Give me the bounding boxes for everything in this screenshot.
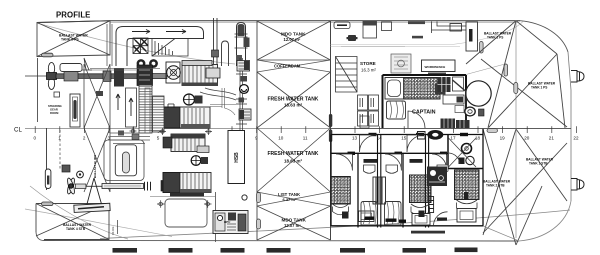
- svg-text:11: 11: [303, 136, 308, 141]
- frame tick 18: [477, 126, 479, 133]
- svg-text:15: 15: [401, 136, 407, 141]
- frame tick 19: [502, 126, 504, 133]
- captain dresser dark grid: [438, 77, 451, 92]
- aft pipe bundle: [110, 133, 150, 144]
- galley counter dark: [441, 119, 470, 129]
- keel block 7: [455, 248, 478, 253]
- svg-text:TANK 2 STB: TANK 2 STB: [486, 184, 505, 188]
- pump circle stbd: [191, 156, 208, 166]
- sofa berth cabin2 left: [361, 202, 378, 226]
- muffler valve block: [244, 38, 250, 48]
- sofa berth cabin2 right: [385, 202, 402, 226]
- propeller shaft thick: [56, 74, 161, 79]
- registration cross fwd top: [205, 128, 212, 135]
- aft peak X-brace upper: [84, 64, 110, 128]
- shaft coupling ticks: [145, 182, 151, 191]
- bed cabin4 nightstand: [457, 209, 476, 223]
- deck locker small rounded: [334, 22, 350, 29]
- mooring bitts label 2: [412, 36, 423, 39]
- hatch dark bar fore: [411, 231, 445, 234]
- lower fender pill: [42, 202, 54, 206]
- bed cabin1 nightstand: [359, 211, 375, 222]
- sheer curve lower: [100, 210, 570, 239]
- frame tick 1: [59, 126, 61, 133]
- svg-text:GEAR: GEAR: [50, 107, 58, 111]
- main engine stbd plan: [163, 134, 209, 153]
- wc room door arc: [449, 153, 460, 164]
- bow chock upper: [571, 71, 584, 83]
- bottom right corner curve: [519, 201, 571, 241]
- cooling pump circle upper: [184, 94, 203, 105]
- svg-text:STEERING: STEERING: [48, 104, 62, 108]
- bow vertical brace upper: [515, 21, 517, 128]
- wc room shower dark: [459, 158, 465, 165]
- muffler flange marks: [235, 34, 248, 48]
- aft lower ballast tank 4 STB outline: [36, 204, 109, 240]
- captain sofa: [387, 101, 406, 119]
- svg-text:HPU: HPU: [224, 220, 230, 224]
- aft lower ballast tank 4 STB diagonals: [36, 204, 109, 240]
- coupling flange circle: [153, 62, 181, 83]
- svg-text:10: 10: [278, 136, 284, 141]
- svg-text:2: 2: [83, 136, 86, 141]
- bed cabin4 blanket curves: [457, 200, 478, 212]
- mess corridor diagonal wall: [453, 80, 467, 92]
- hatch coaming lines: [432, 22, 467, 34]
- frame tick 3: [108, 126, 110, 133]
- small circle fitting: [242, 195, 247, 200]
- wc room walls lower: [448, 135, 483, 169]
- funnel intake pumps dark circles: [137, 59, 146, 68]
- basin cabin2: [386, 165, 398, 173]
- stern quarter curve lower: [30, 186, 128, 239]
- captain bed frame: [385, 78, 440, 100]
- brace pill upper: [514, 83, 518, 94]
- frame tick 0: [34, 126, 36, 133]
- frame tick 9: [256, 126, 258, 133]
- svg-text:19: 19: [500, 136, 506, 141]
- bed cabin4 mattress: [455, 170, 480, 200]
- column tees: [236, 74, 247, 124]
- forecastle deck edge lines: [331, 45, 461, 47]
- thruster cabinet: [70, 94, 80, 127]
- brace pill lower: [487, 129, 498, 133]
- engine casing stairs: [152, 39, 175, 57]
- svg-text:WORKBENCH: WORKBENCH: [425, 65, 447, 69]
- svg-text:TANK 2 PS: TANK 2 PS: [487, 36, 503, 40]
- equipment dotted box: [391, 54, 411, 73]
- engine room floor line: [150, 196, 215, 198]
- gearbox block: [137, 65, 153, 86]
- wc room basin: [466, 156, 474, 164]
- vent duct main run: [116, 27, 204, 67]
- fore deck door cabinet: [466, 22, 478, 51]
- wc room cross braces: [449, 138, 477, 167]
- captain door arc: [408, 111, 425, 128]
- captain desk: [443, 95, 464, 104]
- svg-text:6.37 m³: 6.37 m³: [283, 197, 297, 202]
- deck box tall: [363, 22, 377, 39]
- bed cabin3 nightstand: [412, 214, 430, 226]
- pipe drop fwd of engine: [210, 88, 236, 108]
- column top manifold: [237, 61, 250, 72]
- tank fore bulkhead: [330, 21, 332, 240]
- svg-text:1: 1: [58, 136, 61, 141]
- frame tick 21: [551, 126, 553, 133]
- cabin divider wall 4 double: [426, 135, 429, 228]
- cofferdam void boxes aft: [104, 140, 144, 181]
- svg-text:5: 5: [157, 136, 160, 141]
- flex hoses: [200, 88, 236, 100]
- transom inner curve: [25, 209, 172, 237]
- svg-text:10.9m: 10.9m: [111, 226, 115, 235]
- propeller: [47, 63, 57, 90]
- rudder stock plan: [46, 128, 48, 190]
- workbench tools bar: [428, 73, 446, 76]
- life ring dark oval: [427, 130, 443, 140]
- mess wall vertical: [465, 92, 467, 123]
- svg-text:TANK 3-PS: TANK 3-PS: [61, 38, 79, 42]
- life ring bracket: [418, 132, 426, 140]
- bed cabin1 dark mark: [342, 212, 349, 219]
- store wardrobe grid: [358, 95, 379, 126]
- bow curve top: [520, 21, 568, 52]
- frame tick 11: [305, 126, 307, 133]
- bow web upper diagonals: [466, 21, 567, 128]
- bed cabin4 dark mark: [464, 192, 468, 199]
- void box pill: [122, 152, 129, 173]
- hull top edge profile: [37, 21, 520, 23]
- store lower cabinet: [360, 116, 369, 128]
- muffler lower block: [236, 55, 242, 63]
- frame tick 5: [157, 126, 159, 133]
- keel block 2: [169, 248, 193, 253]
- hatch small rect: [450, 24, 462, 32]
- wc toilet upper: [465, 107, 484, 116]
- store stairs: [336, 57, 358, 93]
- fore deck edge diagonal: [483, 226, 519, 241]
- svg-text:TANK 1 STB: TANK 1 STB: [529, 162, 548, 166]
- fore cabin door arc: [434, 212, 448, 226]
- rudder stock profile: [37, 58, 39, 122]
- duct arrow up 2: [116, 94, 120, 110]
- svg-text:STORE: STORE: [360, 61, 376, 66]
- svg-text:21: 21: [549, 136, 555, 141]
- engine room aft bulkhead: [256, 21, 258, 240]
- column blob a: [241, 76, 248, 82]
- exhaust pipe riser pair: [214, 18, 218, 66]
- svg-text:22: 22: [573, 136, 579, 141]
- svg-text:ROOM: ROOM: [50, 111, 59, 115]
- pipe bundle fittings: [118, 131, 124, 136]
- svg-text:12.07 m³: 12.07 m³: [284, 223, 301, 228]
- steering link dashed: [59, 130, 61, 170]
- captain nightstand dark: [435, 84, 446, 95]
- frame tick 15: [403, 126, 405, 133]
- captain mattress dotted: [404, 78, 441, 100]
- bed cabin3 blanket curves: [411, 204, 430, 215]
- engine room fwd wall line: [215, 192, 217, 242]
- stern bottom corner: [36, 232, 44, 241]
- keel block 1: [113, 248, 138, 253]
- svg-text:CL: CL: [14, 127, 22, 134]
- corridor wall: [331, 152, 448, 154]
- shaft flange dark block: [161, 181, 168, 192]
- registration cross fwd bottom: [204, 200, 212, 208]
- cooler rib bank 2: [153, 96, 165, 132]
- MDO tank PS diagonals: [257, 21, 331, 60]
- ballast water tank 3-PS diagonals: [37, 21, 110, 57]
- svg-text:MDO TANK: MDO TANK: [281, 32, 306, 37]
- svg-text:BALLAST W. 4PS: BALLAST W. 4PS: [93, 155, 97, 178]
- aft peak X-brace lower: [84, 128, 110, 192]
- svg-text:12.07 m³: 12.07 m³: [284, 37, 301, 42]
- stern fender pill: [42, 53, 54, 57]
- MDO tank STB diagonals: [257, 206, 331, 240]
- cooler rib bank: [139, 85, 152, 133]
- door threshold marks mid wall: [348, 152, 448, 155]
- frame tick 17: [452, 126, 454, 133]
- fresh water tank STB diagonals: [257, 128, 331, 192]
- cabin door arc 3: [432, 154, 446, 169]
- hull bottom edge: [44, 240, 519, 243]
- wc room toilet: [462, 144, 472, 154]
- engine bed outline: [165, 199, 207, 227]
- shaft thin line plan: [86, 185, 102, 187]
- shaft tube plan: [102, 184, 144, 189]
- list tank diagonals: [257, 192, 331, 206]
- sheer curve upper: [37, 23, 235, 64]
- cabin divider wall 3: [402, 153, 404, 227]
- uptake vertical ducts: [107, 24, 112, 66]
- shaft stub plan: [75, 184, 86, 189]
- basin cabin3: [437, 165, 448, 173]
- bulkhead pill lower: [329, 130, 332, 143]
- escape ladder: [429, 197, 434, 213]
- frame tick 10: [280, 126, 282, 133]
- funnel casing HSB: [228, 131, 245, 184]
- duct arrow up 1: [129, 98, 133, 116]
- svg-text:MDO TANK: MDO TANK: [282, 218, 307, 223]
- mess table circle: [466, 81, 491, 106]
- fresh water tank PS diagonals: [257, 72, 331, 128]
- sofa arm dark marks: [365, 217, 407, 223]
- bow vertical brace lower: [515, 129, 517, 238]
- frame tick 8: [231, 126, 233, 133]
- column foot box: [234, 131, 245, 136]
- riser valve: [212, 50, 219, 57]
- door threshold marks top wall: [369, 133, 469, 136]
- stern gland circle: [77, 171, 84, 178]
- skeg strut V: [87, 178, 102, 204]
- muffler mast: [237, 23, 246, 67]
- deck box small: [382, 22, 392, 31]
- registration cross aft bottom: [157, 200, 165, 208]
- svg-text:17: 17: [450, 136, 456, 141]
- fwd cabin dark unit: [427, 167, 447, 187]
- svg-text:18.63 m³: 18.63 m³: [284, 159, 303, 164]
- cabin block outer walls: [331, 129, 483, 226]
- keel block 5: [340, 248, 365, 253]
- centerline CL: [25, 128, 330, 130]
- rudder blade plan: [45, 169, 51, 189]
- frame tick 20: [526, 126, 528, 133]
- svg-text:TANK 4 STB: TANK 4 STB: [66, 227, 86, 231]
- cabin door arc 1: [336, 154, 352, 171]
- small box aft: [54, 92, 60, 97]
- casing box behind stairs: [152, 39, 188, 57]
- vent duct arrow 2: [166, 30, 186, 34]
- stencil label plate: [74, 203, 110, 212]
- bed cabin1 blanket curves: [333, 204, 349, 215]
- pill fitting upper: [257, 193, 261, 203]
- silencer pipe rounded: [222, 41, 229, 66]
- shaft coupling discs: [114, 68, 124, 87]
- corridor door arc 2: [407, 135, 424, 152]
- frame tick 2: [83, 126, 85, 133]
- workbench box: [422, 60, 456, 72]
- bow chock lower: [571, 179, 584, 191]
- cabin tv shelf 1: [364, 159, 378, 163]
- cabin divider wall 2 double: [378, 135, 381, 228]
- shaft centerline aft: [25, 75, 47, 77]
- basin cabin1: [364, 165, 376, 173]
- door pill upper deck: [480, 42, 484, 54]
- pipe elbow to column: [225, 108, 236, 115]
- cabin divider wall 1: [357, 153, 359, 227]
- bulkhead pill upper: [329, 114, 332, 127]
- tank margin boxes aft of engines: [145, 88, 150, 133]
- propeller plan star: [66, 177, 76, 194]
- frame tick 4: [133, 126, 135, 133]
- deck winch dark: [347, 35, 358, 41]
- keel block 3: [221, 248, 245, 253]
- svg-text:TANK 1 PS: TANK 1 PS: [531, 86, 547, 90]
- small fitting box: [62, 165, 70, 172]
- column blob b: [239, 98, 245, 103]
- register cross mid: [130, 128, 137, 135]
- ballast water tank 3-PS outline: [37, 21, 110, 57]
- pill fitting lower: [257, 219, 261, 229]
- bed cabin1 mattress: [331, 177, 351, 205]
- svg-text:0: 0: [34, 136, 37, 141]
- column valve cluster: [239, 109, 251, 120]
- svg-text:FRESH WATER TANK: FRESH WATER TANK: [268, 151, 319, 157]
- frame tick 22: [575, 126, 577, 133]
- keel block 6: [403, 248, 427, 253]
- svg-text:13: 13: [352, 136, 358, 141]
- genset stbd plan: [163, 173, 211, 197]
- main engine port profile: [182, 61, 220, 87]
- registration cross aft top: [159, 128, 166, 135]
- svg-text:PROFILE: PROFILE: [56, 11, 91, 20]
- keel block 4: [267, 248, 291, 253]
- genset port profile: [161, 104, 210, 128]
- cofferdam band: [257, 60, 331, 72]
- pipe column fwd riser: [240, 58, 243, 135]
- svg-text:16.3 m²: 16.3 m²: [361, 68, 376, 73]
- svg-text:20: 20: [524, 136, 530, 141]
- frame tick 13: [354, 126, 356, 133]
- HPU unit: [213, 211, 248, 234]
- pipe run above shaft: [90, 68, 160, 70]
- svg-text:18.63 m³: 18.63 m³: [284, 102, 303, 107]
- bow web lower diagonals: [483, 129, 567, 245]
- deckhouse side line: [466, 64, 505, 75]
- vent duct arrow 1: [132, 30, 150, 34]
- mast derrick: [82, 58, 92, 70]
- bow right edge: [568, 52, 571, 201]
- svg-text:HSB: HSB: [234, 152, 240, 163]
- captain cabin walls: [383, 75, 467, 128]
- small equipment label aft: [96, 91, 103, 96]
- corridor door arc 1: [360, 135, 377, 152]
- pressure gauge circle: [240, 85, 249, 94]
- wardrobe striped cabin2: [373, 177, 386, 204]
- fore cabin door bar: [437, 218, 447, 221]
- svg-text:COFFERDAM: COFFERDAM: [274, 64, 301, 69]
- vent damper hatched box: [133, 38, 148, 54]
- bed cabin3 dark mark: [419, 211, 425, 218]
- forecastle sheer to bow: [452, 22, 523, 45]
- frame tick 14: [379, 126, 381, 133]
- captain locker right: [453, 77, 464, 91]
- cabin door arc 2: [385, 154, 401, 171]
- mooring label text: [408, 21, 425, 24]
- captain pillow: [388, 80, 401, 97]
- steering gear box: [60, 64, 82, 72]
- deck line under top edge: [110, 21, 518, 23]
- cabin tv shelf 2: [410, 159, 423, 163]
- riser top elbow: [341, 46, 405, 48]
- supply duct with arrow: [126, 88, 137, 127]
- bed cabin3 mattress: [410, 175, 432, 203]
